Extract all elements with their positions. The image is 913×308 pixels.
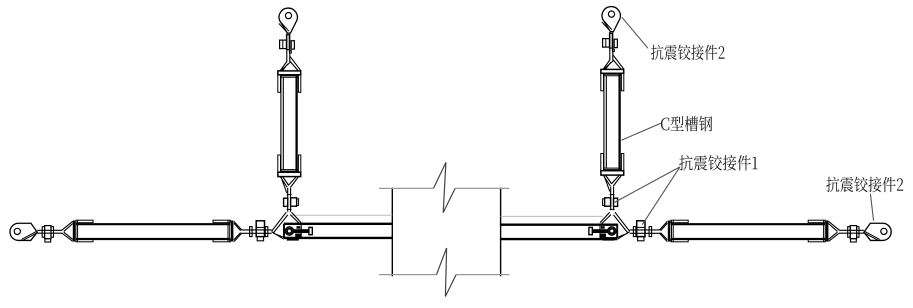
brace channel right end plates <box>672 220 674 242</box>
channel top spring tabs <box>278 75 281 93</box>
hinge lower-left edge <box>272 232 284 240</box>
eye plate <box>602 7 620 32</box>
wall lug plate <box>864 223 891 240</box>
channel bottom spring tabs <box>278 155 281 172</box>
brace channel right cap <box>668 221 671 242</box>
C-channel body vertical <box>281 75 283 173</box>
turnbuckle rod <box>630 230 660 233</box>
clamp side bolt end plate <box>589 227 592 234</box>
lug bolt lower nut <box>851 239 857 242</box>
lug bolt lower nut <box>45 239 51 242</box>
label connector2 right <box>826 177 903 193</box>
bolt head M1 <box>603 39 610 48</box>
channel bottom cap <box>278 172 301 176</box>
clamp side bolt shaft <box>293 229 310 233</box>
pipe clamp body <box>600 224 617 237</box>
rod tick <box>610 195 615 210</box>
wall lug plate <box>10 223 37 240</box>
brace channel left end plates <box>824 220 826 242</box>
label connector2 top <box>651 45 725 61</box>
break line bottom <box>437 248 457 297</box>
leader to label connector2 right <box>870 194 873 221</box>
eye plate hole <box>608 11 614 17</box>
brace channel left end plates <box>76 220 78 242</box>
turnbuckle washers <box>649 227 652 237</box>
label connector1 <box>679 155 757 171</box>
clamp bolt head circle <box>285 227 293 235</box>
clamp side bolt shaft <box>591 229 608 233</box>
pipe clamp body <box>284 224 301 237</box>
hinge upper-left edge <box>613 212 629 232</box>
pipe run left segment <box>284 224 392 238</box>
brace channel left tabs <box>808 220 825 223</box>
rod hex nut left <box>284 198 288 206</box>
channel bottom cap <box>601 171 624 175</box>
washer plate 1 <box>610 33 613 48</box>
brace channel right tabs <box>213 220 230 223</box>
lug bolt nut <box>45 226 51 239</box>
channel bottom spring tabs <box>601 154 604 171</box>
wall lug hole <box>14 228 20 234</box>
clamp side bolt end plate <box>309 227 312 234</box>
lug bolt washers <box>857 227 859 238</box>
brace channel left tabs <box>76 220 93 223</box>
turnbuckle lower nut <box>638 237 644 241</box>
eye plate fold lines <box>279 21 289 32</box>
cone connector right <box>659 221 667 241</box>
rod joint block <box>612 49 614 52</box>
center pipe right edge <box>500 188 502 277</box>
cone connector top <box>280 56 301 71</box>
lug bolt washers <box>42 227 44 238</box>
pipe hidden top edge right <box>501 215 603 217</box>
center pipe left edge <box>391 188 393 277</box>
eye plate <box>279 8 297 33</box>
break line top <box>434 162 456 212</box>
hanger rod lower <box>611 187 614 211</box>
hanger rod lower <box>288 188 291 212</box>
rod hex nut left <box>614 198 618 206</box>
label C-channel <box>661 116 712 131</box>
turnbuckle lower nut <box>257 237 263 241</box>
turnbuckle washers <box>250 227 253 237</box>
channel top cap <box>278 71 301 75</box>
center pipe bottom line <box>379 274 510 276</box>
cone connector left <box>62 221 73 241</box>
cone connector left <box>828 221 839 241</box>
channel top spring tabs <box>601 73 604 91</box>
lug bolt rod <box>37 230 62 233</box>
clamp foot <box>287 238 299 240</box>
wall lug fold lines <box>864 232 880 241</box>
hinge upper-left edge <box>272 212 288 232</box>
turnbuckle nut <box>256 221 264 237</box>
rod hex nut right <box>291 198 297 206</box>
C-channel body vertical <box>604 73 606 171</box>
channel top cap <box>601 69 624 73</box>
eye plate hole <box>285 13 291 19</box>
clamp jaw bottom <box>295 234 301 238</box>
brace C-channel body <box>76 224 230 239</box>
pipe hidden top edge left <box>292 214 392 216</box>
brace channel left cap <box>73 221 75 242</box>
brace channel right tabs <box>671 220 688 223</box>
clamp foot <box>602 238 614 240</box>
turnbuckle rod <box>242 230 272 233</box>
brace channel right cap <box>231 221 234 242</box>
hanger rod upper <box>287 34 290 63</box>
hanger rod upper <box>610 32 613 61</box>
pipe run right segment <box>501 225 618 239</box>
leader to label connector2 top <box>622 17 648 48</box>
turnbuckle nut <box>637 221 645 237</box>
clamp bolt head circle <box>608 227 616 235</box>
wall lug hole <box>881 228 887 234</box>
cone connector right <box>234 221 242 241</box>
bolt head M1 <box>280 40 287 49</box>
washer plate 2 <box>614 39 617 47</box>
leaders to label connector1 <box>615 167 680 225</box>
wall lug fold lines <box>22 232 38 241</box>
cone connector bottom <box>604 176 622 192</box>
rod joint block <box>289 51 291 54</box>
lug bolt nut <box>850 226 856 239</box>
rod hex nut right <box>605 198 611 206</box>
center pipe top line <box>379 187 510 189</box>
brace channel left cap <box>826 221 828 242</box>
eye plate fold lines <box>602 20 612 31</box>
washer plate 1 <box>287 35 290 50</box>
hinge upper-right edge <box>600 212 611 223</box>
brace C-channel body <box>671 224 825 239</box>
clamp jaw top <box>297 226 301 229</box>
clamp jaw bottom <box>600 234 606 238</box>
clamp jaw top <box>601 226 605 229</box>
lug bolt rod <box>839 230 864 233</box>
leader to label C-channel <box>621 123 660 140</box>
hinge lower-left edge <box>617 232 629 240</box>
cone connector bottom <box>281 177 299 193</box>
rod tick <box>287 195 292 210</box>
cone connector top <box>603 55 624 70</box>
brace channel right end plates <box>228 220 230 242</box>
hinge upper-right edge <box>290 212 301 223</box>
washer plate 2 <box>291 41 294 49</box>
